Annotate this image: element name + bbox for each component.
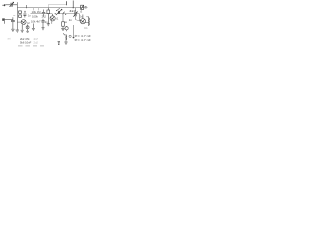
transistor T1 (left): [21, 20, 26, 30]
small circle symbol: [69, 35, 71, 37]
battery terminal long: [72, 1, 74, 8]
resistor R5 (vertical from rail): [47, 8, 50, 24]
junction mark x63: [62, 12, 64, 15]
ground (input cap): [11, 29, 14, 31]
ground (x43 drop): [41, 28, 44, 30]
switch S1 on rail: [56, 8, 60, 11]
trimmer capacitor C9: [73, 8, 78, 17]
symbol cluster bottom (x58): [58, 42, 60, 45]
wire: output line: [85, 22, 88, 24]
svg-text:2k2 47k: 2k2 47k: [20, 37, 30, 41]
wire: drop x63: [62, 14, 64, 22]
legend row 2: [75, 39, 77, 41]
ground (R6): [61, 29, 65, 31]
svg-text:4k7: 4k7: [36, 20, 41, 24]
wire: mid line to right: [60, 13, 75, 15]
capacitor C2a plates: [23, 11, 26, 18]
ground (left bus): [16, 30, 19, 32]
transistor T3 (output): [80, 15, 85, 24]
small dot symbol: [73, 37, 75, 39]
wire: trimmer to base diagonal: [76, 20, 80, 21]
svg-text:ant: ant: [8, 37, 12, 40]
faint mark x13 top: [13, 14, 15, 16]
transistor T2 (middle): [50, 14, 55, 21]
junction dot below line: [65, 14, 66, 15]
svg-text:5k6 10nF: 5k6 10nF: [20, 41, 32, 45]
battery terminal short: [66, 1, 68, 5]
capacitor C5: [41, 19, 48, 28]
earphone coil: [88, 17, 91, 27]
trimmer capacitor C6 on mid line: [56, 9, 62, 15]
svg-text:= 4.7 nF: = 4.7 nF: [78, 35, 92, 38]
svg-text:2u2: 2u2: [34, 41, 39, 45]
inductor L1 windings: [19, 11, 22, 18]
wire: drop from T3 base region down: [73, 25, 75, 36]
wire: tick above rail x26.6: [26, 5, 28, 8]
svg-text:co: co: [64, 20, 67, 24]
capacitor C3 (vertical): [42, 10, 45, 17]
wire: signal line mid: [31, 13, 53, 15]
trimmer capacitor C1: [5, 2, 17, 7]
wire: trimmer C9 bottom lead: [75, 16, 77, 19]
wire: T1 base lead: [17, 21, 21, 23]
electrolytic capacitor C7: [65, 26, 68, 31]
svg-text:2k2: 2k2: [42, 14, 47, 18]
trimmer with ground (bottom centre): [63, 33, 67, 44]
wire: mid line to T3 base: [76, 13, 80, 15]
input connector blob: [2, 17, 15, 29]
wire: left vertical bus: [16, 2, 18, 30]
resistor R6 (vertical): [62, 22, 65, 26]
junction dot: [73, 7, 74, 8]
junction dot on mid line: [55, 13, 56, 14]
coil top tick: [86, 16, 88, 18]
component on rail (phone jack): [81, 5, 87, 9]
svg-text:100k: 100k: [32, 14, 38, 18]
electrolytic capacitor C2: [26, 25, 29, 33]
wire: upper supply line (faint): [48, 4, 66, 6]
wire: T2 emitter drop: [51, 21, 53, 24]
legend row 1: [75, 35, 77, 37]
antenna input arrow: [2, 4, 5, 6]
svg-text:4n7: 4n7: [34, 37, 39, 41]
wire: top supply rail: [17, 7, 87, 9]
svg-text:1n: 1n: [69, 18, 72, 22]
ground (T1 emitter): [21, 30, 24, 32]
faint ghost text row bottom: [18, 45, 44, 47]
ticks rail to R1/R2: [32, 8, 34, 11]
ground (R5 bottom): [47, 24, 50, 26]
wire: T3 base drop: [79, 14, 81, 21]
svg-text:= 4.7 nF: = 4.7 nF: [78, 39, 92, 42]
ground (x33 drop): [32, 24, 35, 31]
